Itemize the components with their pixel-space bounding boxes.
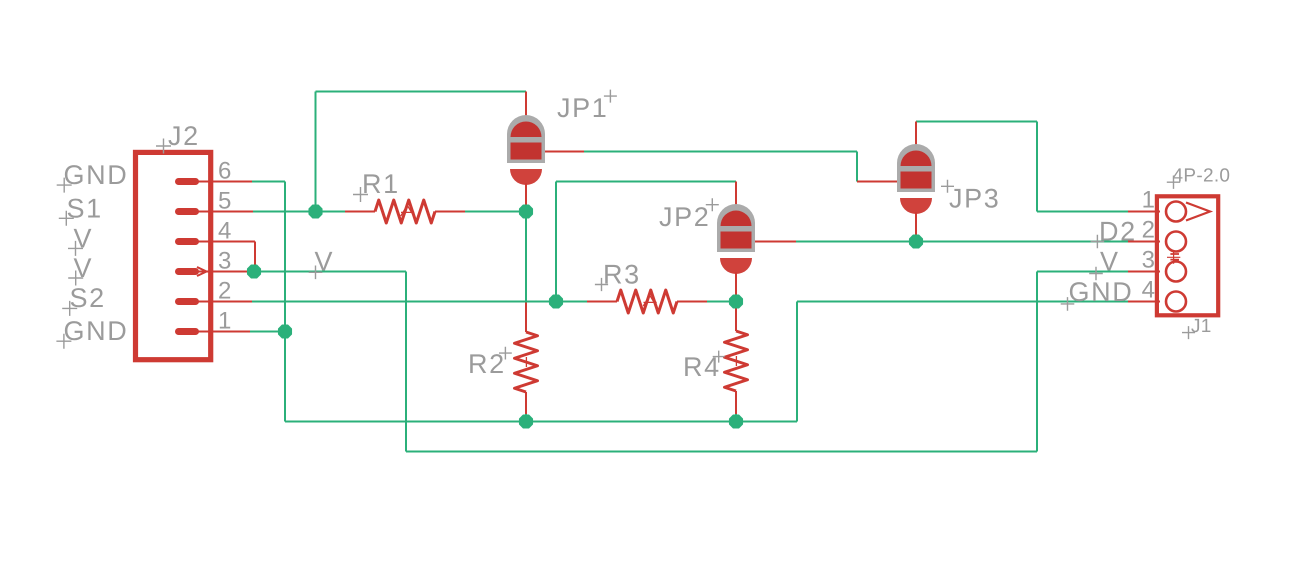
J2 pin 2 pad xyxy=(175,298,199,305)
J2 pin 2 lead xyxy=(197,301,252,303)
jumper JP2 body xyxy=(717,204,755,252)
J1 origin mark xyxy=(1167,251,1180,264)
wire S1 loop left vertical xyxy=(315,92,317,212)
cross V3 xyxy=(68,271,83,286)
wire node down to R2 top xyxy=(525,212,527,303)
wire JP2 top horizontal xyxy=(556,181,736,183)
wire V node to corner xyxy=(254,271,406,273)
jumper JP3 left pin xyxy=(857,181,897,183)
resistor R4 body xyxy=(725,331,748,391)
jumper JP1 top pin xyxy=(525,92,527,123)
J2 pin 1 pad xyxy=(175,328,199,335)
cross J2 label origin xyxy=(156,139,171,154)
wire J2 pin1 to GND vertical xyxy=(250,331,285,333)
wire S1 loop top horizontal xyxy=(316,91,527,93)
wire V to J1 pin3 xyxy=(1037,271,1128,273)
wire node to R1 left xyxy=(316,211,346,213)
R1 value ghost text xyxy=(401,205,414,216)
cross JP2 xyxy=(706,198,719,211)
svg-text:1: 1 xyxy=(1142,187,1155,214)
R2 value ghost text xyxy=(525,357,527,367)
cross 4P-2.0 xyxy=(1167,176,1180,189)
jumper JP2 top pin xyxy=(735,182,737,213)
wire GND left vertical xyxy=(284,182,286,422)
cross V J1 xyxy=(1089,267,1103,281)
svg-text:V: V xyxy=(1100,247,1120,277)
wire JP2 right to node xyxy=(796,241,916,243)
svg-text:4: 4 xyxy=(1142,277,1155,304)
jumper JP1 bottom pad xyxy=(510,169,542,185)
svg-text:4P-2.0: 4P-2.0 xyxy=(1173,166,1231,187)
J2 pin4-pin3 red link xyxy=(254,242,256,272)
junction node R2 GND xyxy=(520,415,533,428)
resistor R1 right lead xyxy=(435,211,465,213)
cross V mid xyxy=(309,266,323,280)
junction node R1/JP1/R2 xyxy=(520,205,533,218)
junction node GND pin1 xyxy=(279,325,292,338)
wire JP3 top horizontal xyxy=(916,121,1037,123)
resistor R3 left lead xyxy=(587,301,617,303)
junction node R3/JP2/R4 xyxy=(730,295,743,308)
wire GND right vertical xyxy=(796,302,798,422)
svg-text:2: 2 xyxy=(1142,217,1155,244)
svg-text:JP3: JP3 xyxy=(949,184,1000,214)
resistor R1 body xyxy=(375,200,435,223)
junction node D2 xyxy=(910,235,923,248)
jumper JP3 top pin xyxy=(915,122,917,153)
wire JP3 left drop xyxy=(856,152,858,182)
J1 pin 1 lead xyxy=(1128,211,1160,213)
wire V bottom horizontal xyxy=(406,451,1037,453)
J2 pin 4 lead xyxy=(197,241,255,243)
resistor R2 top lead xyxy=(525,303,527,333)
cross GND1 xyxy=(56,334,71,349)
jumper JP2 bottom pin xyxy=(735,272,737,302)
J2 pin 5 lead xyxy=(197,211,253,213)
wire R4 bottom to GND xyxy=(735,413,737,422)
jumper JP3 bottom pad xyxy=(900,198,932,214)
wire V left vertical xyxy=(405,272,407,452)
cross GND J1 xyxy=(1061,297,1075,311)
svg-text:3: 3 xyxy=(218,248,231,275)
J1 pin 3 circle xyxy=(1166,262,1186,282)
junction node S1 xyxy=(309,205,322,218)
cross R1 xyxy=(353,187,368,202)
wire GND bottom horizontal xyxy=(285,421,797,423)
cross GND6 xyxy=(57,178,72,193)
svg-text:1: 1 xyxy=(218,308,231,335)
cross V4 xyxy=(68,241,83,256)
cross S2 xyxy=(62,301,77,316)
cross JP3 xyxy=(941,180,954,193)
jumper JP1 body xyxy=(507,115,545,163)
J1 pin 1 chevron xyxy=(1186,203,1210,221)
J1 pin 2 lead xyxy=(1128,241,1160,243)
wire node to R3 left xyxy=(556,301,587,303)
svg-text:J2: J2 xyxy=(168,121,200,151)
J2 pin 3 lead xyxy=(197,271,254,273)
wire S2 from J2 pin2 xyxy=(252,301,556,303)
wire to J1 pin1 xyxy=(1037,211,1128,213)
svg-text:5: 5 xyxy=(218,188,231,215)
J2 pin 5 pad xyxy=(175,208,199,215)
J2 pin 4 pad xyxy=(175,238,199,245)
cross R4 xyxy=(713,351,725,363)
svg-text:GND: GND xyxy=(64,316,129,346)
svg-text:J1: J1 xyxy=(1191,316,1212,337)
J1 pin 3 lead xyxy=(1128,271,1160,273)
cross R2 xyxy=(499,347,512,360)
J2 pin 3 pad xyxy=(175,268,199,275)
cross R3 xyxy=(595,278,608,291)
jumper JP2 bottom pad xyxy=(720,258,752,274)
jumper JP1 right pin xyxy=(545,151,584,153)
svg-text:R3: R3 xyxy=(603,260,641,290)
connector J1 body xyxy=(1157,196,1218,315)
J2 pin 3 arrow xyxy=(197,267,207,276)
J2 pin 6 pad xyxy=(175,178,199,185)
junction node S2/R3 xyxy=(550,295,563,308)
resistor R4 bottom lead xyxy=(735,391,737,414)
wire V right vertical xyxy=(1036,272,1038,452)
jumper JP3 body xyxy=(897,144,935,192)
wire R1 right to node xyxy=(465,211,526,213)
resistor R3 right lead xyxy=(677,301,707,303)
wire JP1 right to JP3 corner xyxy=(584,151,857,153)
resistor R2 bottom lead xyxy=(525,392,527,414)
wire R3 right to node xyxy=(707,301,736,303)
svg-text:GND: GND xyxy=(64,160,129,190)
wire J2 pin6 to GND vertical xyxy=(252,181,285,183)
jumper JP1 bottom pin xyxy=(525,183,527,212)
connector J2 body xyxy=(136,152,211,359)
cross S1 xyxy=(59,211,74,226)
wire R2 bottom to GND xyxy=(525,413,527,422)
wire D2 right vertical xyxy=(1036,122,1038,212)
jumper JP2 right pin xyxy=(755,241,796,243)
svg-text:JP1: JP1 xyxy=(557,93,608,123)
svg-text:2: 2 xyxy=(218,278,231,305)
wire GND to J1 pin4 xyxy=(797,301,1128,303)
svg-text:JP2: JP2 xyxy=(659,202,710,232)
junction node V at J2 xyxy=(248,265,261,278)
resistor R2 body xyxy=(515,332,538,392)
J1 pin 4 circle xyxy=(1166,292,1186,312)
jumper JP3 bottom pin xyxy=(915,212,917,242)
cross D2 xyxy=(1091,235,1105,249)
resistor R4 top lead xyxy=(735,302,737,332)
svg-text:GND: GND xyxy=(1069,277,1134,307)
wire JP2 top vertical xyxy=(555,182,557,302)
cross JP1 xyxy=(604,90,617,103)
svg-text:4: 4 xyxy=(218,218,231,245)
R4 value ghost text xyxy=(735,356,737,366)
svg-text:3: 3 xyxy=(1142,247,1155,274)
R3 value ghost text xyxy=(643,295,656,306)
svg-text:D2: D2 xyxy=(1099,217,1137,247)
J1 pin 4 lead xyxy=(1128,301,1160,303)
J1 pin 1 circle xyxy=(1166,202,1186,222)
resistor R1 left lead xyxy=(345,211,375,213)
wire J2 pin5 to node xyxy=(253,211,316,213)
cross J1 label xyxy=(1182,326,1195,339)
J2 pin 6 lead xyxy=(197,181,252,183)
junction node R4 GND xyxy=(730,415,743,428)
resistor R3 body xyxy=(617,290,677,313)
wire D2 node to J1 pin2 xyxy=(916,241,1128,243)
svg-text:6: 6 xyxy=(218,158,231,185)
J1 pin 2 circle xyxy=(1166,232,1186,252)
J2 pin 1 lead xyxy=(197,331,250,333)
